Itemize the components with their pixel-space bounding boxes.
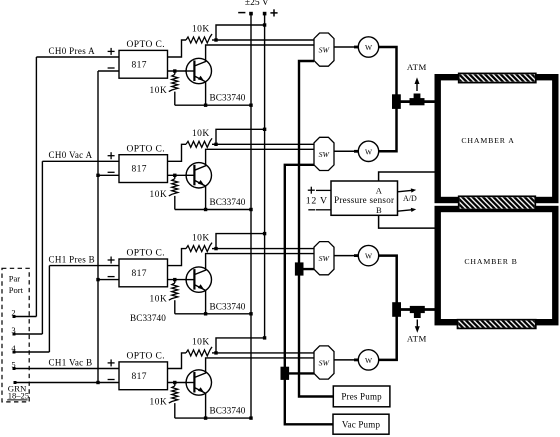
svg-text:BC33740: BC33740 — [210, 301, 246, 311]
svg-text:CHAMBER B: CHAMBER B — [464, 257, 517, 266]
svg-text:Par: Par — [9, 274, 20, 284]
svg-text:Port: Port — [9, 285, 24, 295]
svg-text:SW: SW — [319, 150, 331, 159]
svg-text:ATM: ATM — [407, 62, 427, 72]
svg-text:OPTO C.: OPTO C. — [127, 40, 166, 50]
svg-text:W: W — [365, 252, 373, 261]
svg-text:CHAMBER A: CHAMBER A — [461, 136, 514, 145]
svg-text:817: 817 — [131, 269, 146, 279]
svg-text:817: 817 — [131, 165, 146, 175]
svg-text:10K: 10K — [149, 190, 167, 200]
svg-text:10K: 10K — [192, 338, 210, 348]
svg-text:OPTO C.: OPTO C. — [127, 144, 166, 154]
svg-text:BC33740: BC33740 — [210, 197, 246, 207]
svg-text:W: W — [365, 147, 373, 156]
svg-text:SW: SW — [319, 46, 331, 55]
svg-text:BC33740: BC33740 — [210, 93, 246, 103]
svg-text:CH0 Pres A: CH0 Pres A — [49, 46, 96, 56]
svg-text:Pres Pump: Pres Pump — [341, 392, 382, 402]
svg-text:SW: SW — [319, 254, 331, 263]
svg-text:ATM: ATM — [407, 333, 427, 343]
svg-text:10K: 10K — [192, 129, 210, 139]
svg-text:CH1 Vac B: CH1 Vac B — [49, 357, 93, 367]
svg-text:OPTO C.: OPTO C. — [127, 352, 166, 362]
svg-text:Pressure sensor: Pressure sensor — [334, 195, 394, 205]
svg-text:±25 V: ±25 V — [245, 0, 269, 8]
svg-text:BC33740: BC33740 — [210, 406, 246, 416]
svg-text:CH0 Vac A: CH0 Vac A — [49, 150, 93, 160]
svg-text:A/D: A/D — [403, 194, 417, 203]
svg-text:CH1 Pres B: CH1 Pres B — [49, 254, 96, 264]
svg-text:10K: 10K — [149, 86, 167, 96]
svg-text:BC33740: BC33740 — [130, 313, 166, 323]
svg-text:W: W — [365, 43, 373, 52]
svg-text:10K: 10K — [149, 294, 167, 304]
svg-text:10K: 10K — [192, 233, 210, 243]
svg-text:SW: SW — [319, 359, 331, 368]
svg-text:A: A — [376, 185, 383, 195]
svg-text:W: W — [365, 356, 373, 365]
svg-text:817: 817 — [131, 372, 146, 382]
svg-text:18–25: 18–25 — [8, 391, 29, 401]
svg-text:Vac Pump: Vac Pump — [342, 420, 381, 430]
svg-text:10K: 10K — [149, 397, 167, 407]
svg-text:12 V: 12 V — [306, 196, 328, 207]
svg-text:817: 817 — [131, 60, 146, 70]
svg-text:B: B — [376, 205, 382, 215]
svg-text:10K: 10K — [192, 25, 210, 35]
svg-text:OPTO C.: OPTO C. — [127, 249, 166, 259]
